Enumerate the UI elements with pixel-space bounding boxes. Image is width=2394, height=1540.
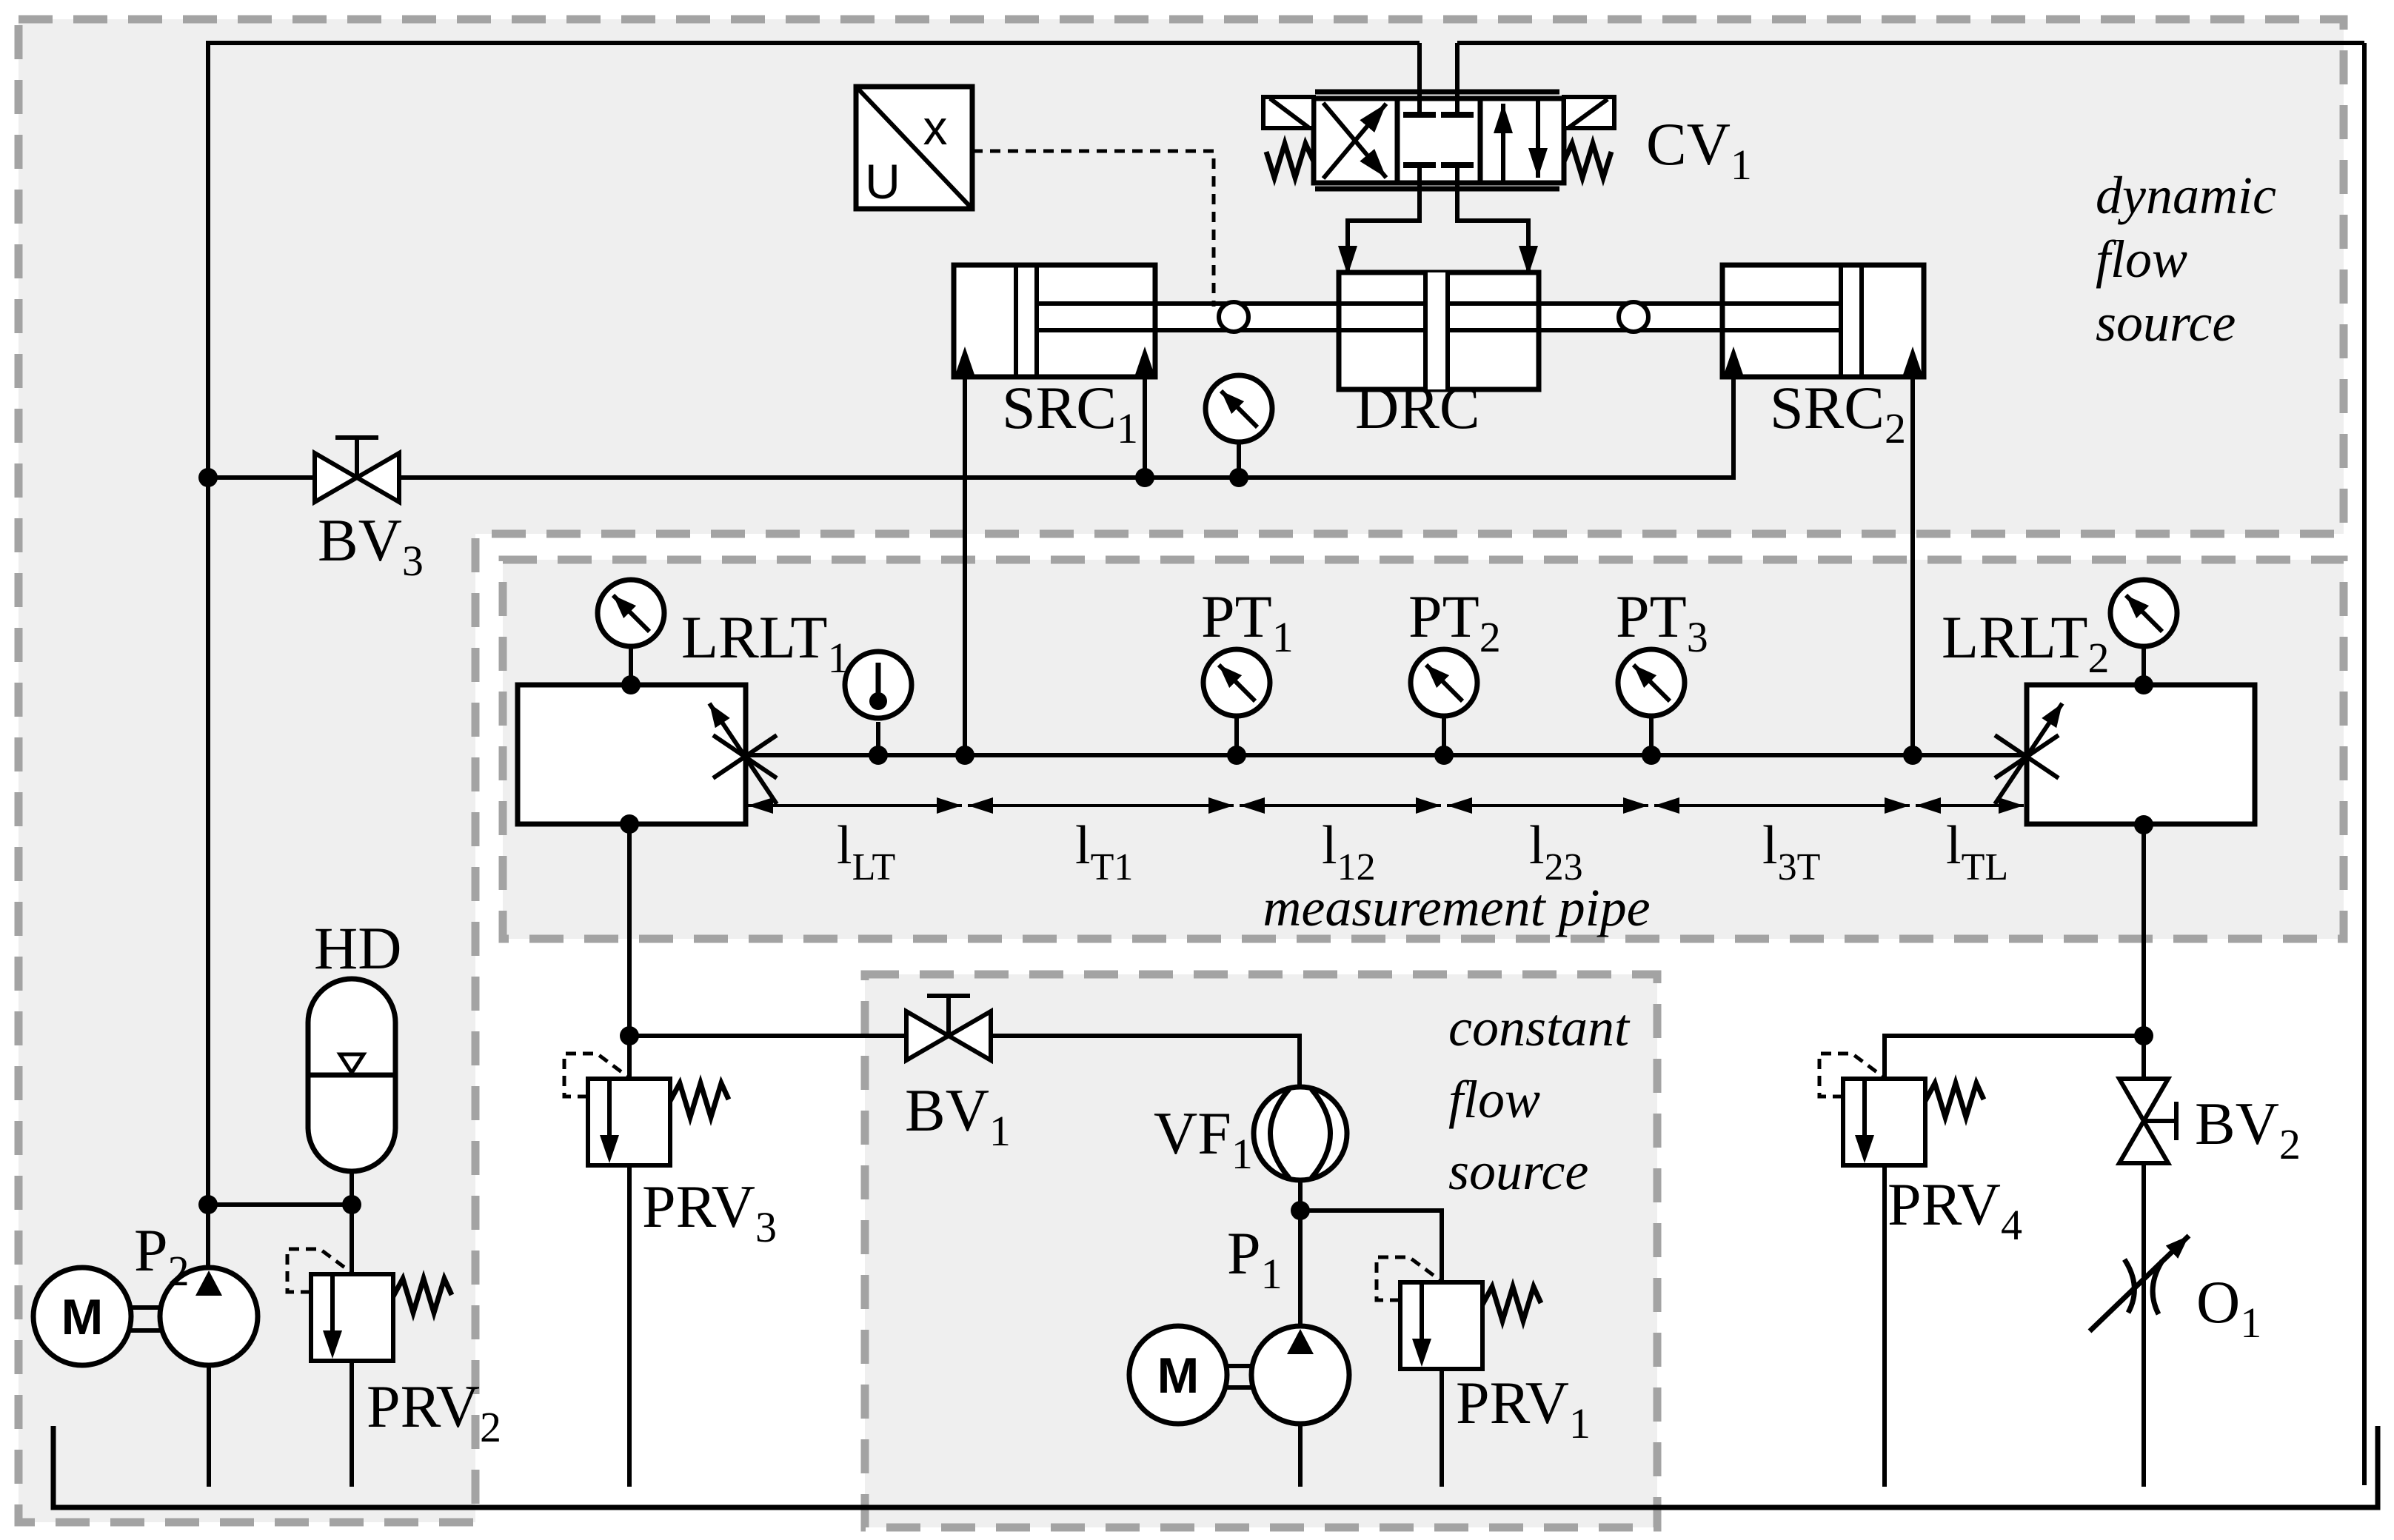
wire: BV3 line from supply to SRC2 left port [208, 375, 1733, 478]
tank line [53, 1426, 2378, 1507]
svg-text:DRC: DRC [1355, 374, 1480, 441]
wire: VF1 down to P1 [1298, 1180, 1303, 1326]
pipe junction dots [869, 746, 888, 765]
relief valve PRV1 [1377, 1257, 1541, 1369]
CV1 middle position blocked ports [1403, 98, 1474, 183]
LRLT1 bottom port dot [620, 814, 639, 834]
motor M of P2 [33, 1268, 131, 1365]
cylinder SRC2 [1722, 265, 1924, 377]
relief valve PRV2 [287, 1249, 452, 1361]
svg-text:U: U [865, 154, 900, 209]
wire: BV2 down through O1 to tank [2141, 1163, 2146, 1487]
dashed signal line from transducer to rod joint [972, 151, 1214, 307]
LRLT1 box [518, 685, 746, 824]
dimension line l_12 [1240, 804, 1441, 807]
CV1 right solenoid [1564, 97, 1614, 128]
relief valve PRV3 [564, 1054, 729, 1165]
svg-text:source: source [2096, 293, 2236, 352]
LRLT1 gauge [629, 649, 633, 685]
thermometer gauge [845, 652, 912, 755]
cylinder DRC [1339, 272, 1539, 389]
wire: return line right side [2362, 43, 2367, 1485]
region: constant flow source box [865, 974, 1657, 1527]
junction dots on BV3 line [198, 468, 218, 487]
rod joint right [1619, 302, 1648, 332]
CV1 right position parallel arrows [1503, 98, 1538, 183]
svg-text:measurement pipe: measurement pipe [1263, 878, 1650, 937]
CV1 left spring [1266, 144, 1314, 178]
svg-text:flow: flow [2096, 230, 2187, 289]
dimension line l_3T [1654, 804, 1910, 807]
rod connecting cylinders [1016, 304, 1862, 330]
ball valve BV2 [2119, 1079, 2176, 1163]
LRLT2 bottom port dot [2134, 815, 2153, 834]
wire: LRLT2 drain down [2141, 825, 2146, 1081]
pump P1 [1226, 1326, 1349, 1487]
svg-text:LRLT2: LRLT2 [1942, 603, 2109, 682]
dimension line l_LT [748, 804, 962, 807]
CV1 right spring [1564, 144, 1611, 178]
gauge PT2 [1442, 718, 1446, 755]
node: PRV3/BV1 branch junction [620, 1026, 639, 1045]
svg-text:source: source [1448, 1142, 1588, 1201]
svg-text:HD: HD [314, 914, 401, 982]
wire: CV1 top ports [1417, 43, 1422, 115]
gauge PT3 [1649, 718, 1654, 755]
relief valve PRV4 [1819, 1054, 1984, 1165]
svg-text:x: x [923, 100, 948, 155]
motor M of P1 [1129, 1326, 1227, 1424]
CV1 left position crossed arrows [1323, 103, 1386, 178]
LRLT2 throttle symbol [1995, 703, 2062, 804]
svg-text:dynamic: dynamic [2096, 166, 2276, 225]
region: measurement pipe box [503, 560, 2344, 939]
gauge G1 above BV3 line [1237, 444, 1241, 478]
rod joint left [1219, 302, 1248, 332]
dimension line l_TL [1916, 804, 2024, 807]
LRLT1 throttle symbol [709, 703, 777, 804]
variable orifice O1 [2090, 1236, 2189, 1331]
svg-text:M: M [61, 1289, 104, 1345]
LRLT2 gauge [2141, 649, 2146, 685]
ball valve BV3 [315, 438, 399, 502]
ball valve BV1 [906, 996, 991, 1060]
svg-text:flow: flow [1448, 1070, 1540, 1129]
valve CV1 body [1314, 92, 1564, 189]
svg-text:M: M [1157, 1347, 1200, 1404]
wire: SRC2 right port down to pipe [1910, 375, 1915, 755]
node: PRV4/BV2 branch junction [2134, 1026, 2153, 1045]
transducer U/x block [856, 87, 972, 209]
wire: CV1 bottom left port to DRC [1348, 165, 1420, 275]
wire: branch to PRV1 [1300, 1211, 1442, 1284]
wire: supply from P2 up left side and along top [208, 43, 1420, 1268]
flow meter VF1 [1254, 1087, 1347, 1180]
LRLT2 box [2027, 685, 2255, 824]
dimension line l_T1 [968, 804, 1234, 807]
pump P2 [131, 1268, 258, 1487]
wire: SRC1 left port down to pipe [963, 375, 967, 755]
wire: HD / PRV2 branch [208, 1205, 352, 1276]
wire: SRC1 right port down to BV3 line [1143, 375, 1147, 478]
node: supply/HD junctions [198, 1195, 218, 1214]
cylinder SRC1 [954, 265, 1155, 377]
dimension line l_23 [1447, 804, 1648, 807]
svg-text:constant: constant [1448, 998, 1631, 1057]
wire: top right to return [1457, 41, 2364, 45]
measurement pipe line [745, 753, 2029, 757]
gauge PT1 [1234, 718, 1239, 755]
wire: LRLT1 drain down [627, 824, 632, 1081]
accumulator HD [308, 979, 395, 1205]
node: P1/PRV1 branch junction [1291, 1201, 1310, 1220]
wire: BV1 line to VF1 [629, 1036, 1300, 1088]
wire: CV1 bottom right port to DRC [1457, 165, 1528, 275]
CV1 left solenoid [1263, 97, 1314, 128]
svg-text:LRLT1: LRLT1 [681, 603, 849, 682]
wire: branch to PRV4 [1885, 1036, 2144, 1080]
